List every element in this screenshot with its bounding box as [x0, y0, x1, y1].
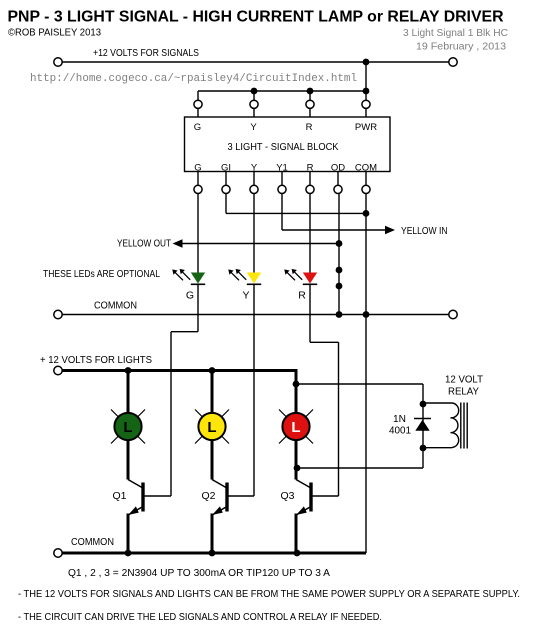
svg-text:L: L	[291, 419, 300, 436]
svg-text:YELLOW IN: YELLOW IN	[401, 226, 448, 237]
svg-text:http://home.cogeco.ca/~rpaisle: http://home.cogeco.ca/~rpaisley4/Circuit…	[30, 73, 357, 85]
svg-text:Y: Y	[251, 162, 258, 173]
svg-text:Y1: Y1	[276, 162, 288, 173]
svg-text:OD: OD	[331, 162, 345, 173]
svg-text:Q1: Q1	[112, 490, 126, 502]
svg-text:Y: Y	[242, 290, 249, 302]
svg-text:THESE LEDs ARE OPTIONAL: THESE LEDs ARE OPTIONAL	[43, 269, 160, 280]
svg-text:+12 VOLTS FOR SIGNALS: +12 VOLTS FOR SIGNALS	[93, 48, 199, 59]
svg-text:COMMON: COMMON	[71, 537, 114, 548]
svg-text:12 VOLT: 12 VOLT	[445, 375, 483, 386]
svg-text:G: G	[194, 162, 201, 173]
svg-text:G: G	[186, 290, 194, 302]
svg-text:G: G	[194, 122, 201, 133]
svg-text:R: R	[298, 290, 306, 302]
svg-text:- THE CIRCUIT CAN DRIVE THE LE: - THE CIRCUIT CAN DRIVE THE LED SIGNALS …	[18, 612, 382, 623]
svg-text:19 February , 2013: 19 February , 2013	[416, 42, 506, 53]
svg-text:RELAY: RELAY	[448, 387, 479, 398]
svg-text:- THE 12 VOLTS FOR SIGNALS AND: - THE 12 VOLTS FOR SIGNALS AND LIGHTS CA…	[18, 589, 520, 600]
svg-text:GI: GI	[221, 162, 231, 173]
svg-text:L: L	[207, 419, 216, 436]
svg-text:Q3: Q3	[280, 490, 294, 502]
svg-text:4001: 4001	[389, 426, 411, 437]
svg-text:Q2: Q2	[201, 490, 215, 502]
svg-text:COM: COM	[355, 162, 377, 173]
svg-text:L: L	[123, 419, 132, 436]
svg-text:COMMON: COMMON	[94, 301, 137, 312]
svg-text:+ 12 VOLTS FOR LIGHTS: + 12 VOLTS FOR LIGHTS	[40, 355, 152, 366]
svg-text:Q1 , 2 , 3 = 2N3904 UP TO 300m: Q1 , 2 , 3 = 2N3904 UP TO 300mA OR TIP12…	[68, 568, 330, 579]
svg-text:1N: 1N	[393, 414, 406, 425]
svg-text:PNP - 3 LIGHT SIGNAL - HIGH CU: PNP - 3 LIGHT SIGNAL - HIGH CURRENT LAMP…	[8, 9, 504, 26]
svg-text:©ROB PAISLEY 2013: ©ROB PAISLEY 2013	[8, 28, 101, 39]
svg-text:3 Light Signal 1 Blk HC: 3 Light Signal 1 Blk HC	[403, 28, 508, 39]
svg-text:3 LIGHT - SIGNAL BLOCK: 3 LIGHT - SIGNAL BLOCK	[228, 142, 339, 153]
svg-text:R: R	[307, 162, 314, 173]
svg-text:Y: Y	[250, 122, 257, 133]
svg-text:R: R	[306, 122, 313, 133]
svg-text:YELLOW OUT: YELLOW OUT	[117, 239, 171, 250]
svg-text:PWR: PWR	[355, 122, 377, 133]
